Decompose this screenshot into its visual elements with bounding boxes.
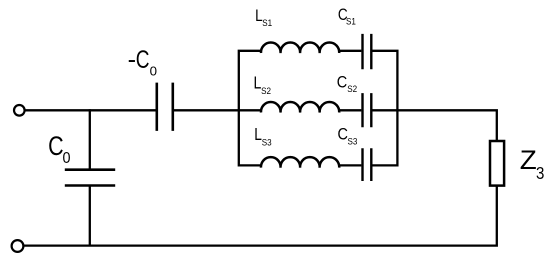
impedance Z3 box [490, 141, 504, 186]
svg-text:S3: S3 [348, 136, 358, 147]
wire branch2 right and output corner [372, 110, 496, 141]
inductor LS3 [261, 157, 339, 167]
wire top input [25, 109, 156, 111]
svg-text:C: C [48, 132, 64, 162]
svg-text:S2: S2 [347, 84, 357, 95]
label LS1 [255, 7, 272, 29]
svg-text:0: 0 [62, 149, 70, 167]
svg-text:-: - [128, 46, 136, 74]
label CS2 [337, 73, 358, 94]
svg-text:S1: S1 [346, 16, 356, 27]
svg-text:S1: S1 [262, 18, 272, 29]
svg-text:3: 3 [536, 164, 544, 183]
svg-text:C: C [337, 73, 347, 91]
label Z3 [520, 144, 545, 183]
wire branch2 mid [339, 109, 362, 111]
svg-text:Z: Z [520, 144, 537, 174]
label CS1 [338, 6, 356, 27]
wire bottom with right corner [23, 186, 496, 246]
capacitor CS1 [363, 34, 372, 69]
label -C0 [128, 46, 157, 79]
label LS3 [254, 125, 272, 147]
capacitor CS3 [363, 148, 372, 181]
node left rail with branch stubs [239, 51, 262, 166]
wire shunt bottom [89, 187, 91, 246]
inductor LS1 [261, 43, 339, 53]
capacitor CS2 [363, 93, 372, 127]
svg-text:0: 0 [150, 64, 157, 79]
label C0 [48, 132, 70, 167]
wire top after -C0 [174, 109, 262, 111]
capacitor C0 [65, 170, 115, 186]
svg-text:L: L [254, 73, 262, 93]
label LS2 [254, 73, 272, 96]
label CS3 [338, 125, 358, 146]
inductor LS2 [261, 102, 339, 112]
wire branch3 right into right rail [372, 110, 397, 165]
svg-text:S3: S3 [262, 137, 272, 148]
capacitor -C0 [157, 83, 173, 131]
terminal top-left [14, 105, 25, 116]
wire branch1 mid [339, 50, 362, 52]
svg-text:S2: S2 [261, 86, 271, 97]
node shunt junction [89, 109, 91, 168]
wire branch3 mid [339, 164, 362, 166]
wire branch1 right into right rail [372, 51, 397, 111]
svg-text:C: C [136, 46, 150, 74]
terminal bottom-left [12, 240, 24, 252]
svg-text:C: C [338, 125, 348, 143]
